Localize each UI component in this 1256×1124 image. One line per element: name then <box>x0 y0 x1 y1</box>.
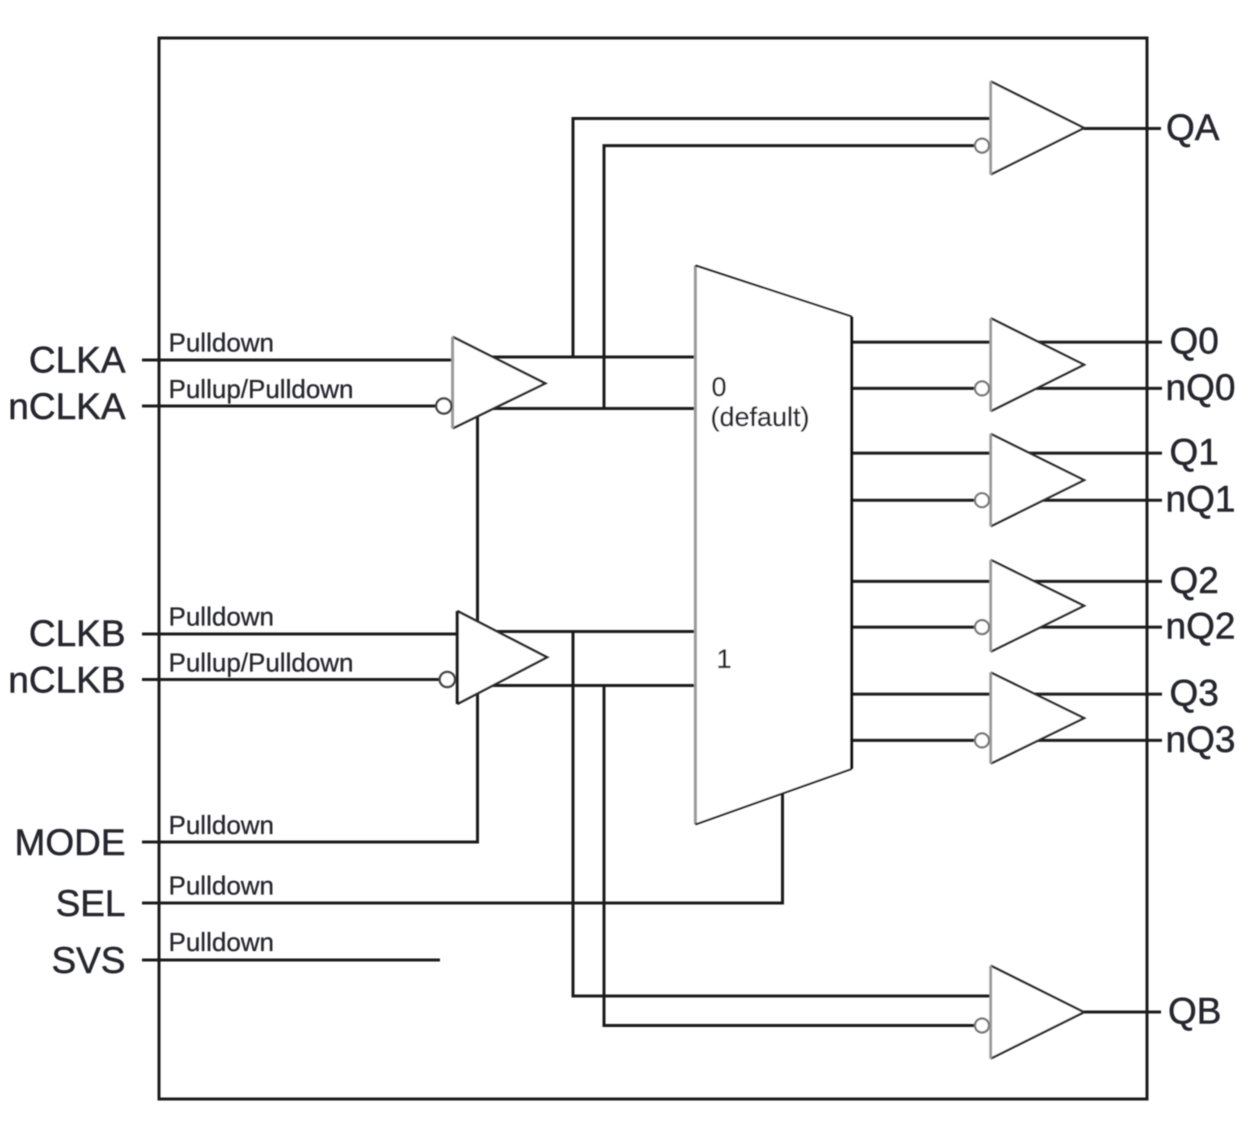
svg-text:(default): (default) <box>711 402 810 432</box>
svg-text:Pulldown: Pulldown <box>169 602 275 632</box>
svg-text:nQ1: nQ1 <box>1166 479 1236 520</box>
svg-text:Pulldown: Pulldown <box>169 871 275 901</box>
svg-text:Q2: Q2 <box>1170 560 1219 601</box>
svg-text:nCLKA: nCLKA <box>8 386 126 427</box>
svg-text:Pullup/Pulldown: Pullup/Pulldown <box>169 374 354 404</box>
svg-text:Pulldown: Pulldown <box>169 810 275 840</box>
svg-text:nCLKB: nCLKB <box>8 660 125 701</box>
svg-text:Pullup/Pulldown: Pullup/Pulldown <box>169 648 354 678</box>
svg-text:MODE: MODE <box>15 822 126 863</box>
svg-text:0: 0 <box>712 372 727 402</box>
svg-text:1: 1 <box>717 644 732 674</box>
svg-text:Q1: Q1 <box>1170 432 1219 473</box>
svg-text:CLKB: CLKB <box>29 613 126 654</box>
svg-text:nQ0: nQ0 <box>1166 367 1236 408</box>
svg-text:nQ3: nQ3 <box>1166 719 1236 760</box>
svg-text:Q3: Q3 <box>1170 673 1219 714</box>
svg-text:Pulldown: Pulldown <box>169 328 275 358</box>
svg-text:nQ2: nQ2 <box>1166 606 1236 647</box>
svg-text:SVS: SVS <box>51 940 125 981</box>
svg-text:CLKA: CLKA <box>29 340 126 381</box>
svg-text:SEL: SEL <box>56 883 126 924</box>
svg-text:Pulldown: Pulldown <box>169 927 275 957</box>
svg-text:QB: QB <box>1168 991 1221 1032</box>
svg-text:QA: QA <box>1166 107 1220 148</box>
svg-text:Q0: Q0 <box>1170 321 1219 362</box>
